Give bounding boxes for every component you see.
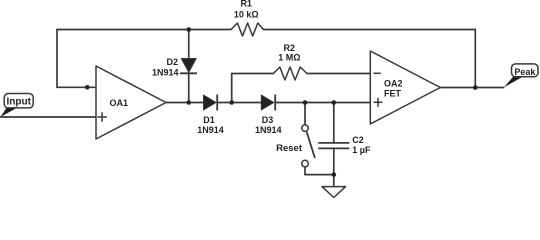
wire top rail right of R1: [263, 29, 475, 31]
wire switch bottom lead: [304, 167, 306, 175]
svg-text:10 kΩ: 10 kΩ: [234, 10, 259, 20]
Input tag: [1, 94, 34, 118]
wire R2 branch vertical: [231, 74, 233, 103]
wire input to OA1 non-inverting input: [1, 116, 96, 118]
node switch / C2 / ground: [332, 172, 337, 177]
wire R2 right lead to OA2 inverting input: [307, 73, 370, 75]
wire feedback to OA1 inverting input: [57, 86, 110, 88]
diode D2: [180, 59, 197, 74]
node rail / C2 branch: [332, 100, 337, 105]
svg-text:C2: C2: [352, 135, 364, 145]
wire C2 bottom to ground: [333, 149, 335, 187]
svg-text:1 µF: 1 µF: [352, 145, 371, 155]
wire C2 branch top: [333, 103, 335, 143]
wire right feedback vertical: [474, 30, 476, 88]
wire switch to capacitor bottom: [305, 174, 334, 176]
label R2 value: [278, 43, 300, 63]
svg-text:1N914: 1N914: [197, 125, 224, 135]
wire D1 cathode to D3 anode: [217, 102, 261, 104]
node D1 cathode / R2 branch: [229, 100, 234, 105]
svg-text:R2: R2: [284, 43, 296, 53]
wire switch branch top: [304, 103, 306, 125]
resistor R1: [231, 23, 263, 36]
svg-text:OA2: OA2: [384, 79, 403, 89]
wire D2 branch vertical: [188, 30, 190, 103]
resistor R2: [273, 67, 307, 80]
node top rail / D2: [186, 27, 191, 32]
label R1 value: [234, 0, 259, 19]
diode D1: [204, 95, 218, 111]
wire top rail left of R1: [57, 29, 231, 31]
svg-text:Input: Input: [6, 96, 31, 107]
svg-text:R1: R1: [240, 0, 252, 9]
label C2 value: [352, 135, 371, 155]
ground: [322, 187, 346, 198]
Peak tag: [504, 64, 538, 88]
svg-text:1N914: 1N914: [152, 68, 179, 78]
svg-text:Peak: Peak: [514, 67, 536, 77]
svg-text:FET: FET: [384, 89, 402, 99]
wire R2 branch left lead: [232, 73, 274, 75]
node feedback / OA1 inverting input: [85, 85, 90, 90]
wire OA2 output to Peak: [440, 87, 503, 89]
label D2 value: [152, 57, 179, 78]
label D3 value: [255, 115, 282, 135]
node OA2 output / right feedback: [473, 85, 478, 90]
diode D3: [261, 95, 275, 111]
svg-text:OA1: OA1: [110, 98, 129, 108]
op-amp OA1: [96, 66, 166, 139]
capacitor C2: [318, 143, 349, 149]
switch Reset: [302, 125, 315, 167]
svg-text:Reset: Reset: [276, 143, 303, 154]
svg-text:D2: D2: [166, 57, 178, 67]
op-amp OA2: [370, 51, 440, 124]
node OA1 output / D2: [186, 100, 191, 105]
wire left feedback vertical: [56, 30, 58, 88]
svg-text:1 MΩ: 1 MΩ: [278, 53, 300, 63]
label D1 value: [197, 115, 224, 135]
node rail / switch branch: [303, 100, 308, 105]
wire D3 cathode to OA2 non-inverting input: [275, 102, 370, 104]
wire OA1 output to D1 anode: [166, 102, 204, 104]
svg-text:1N914: 1N914: [255, 125, 282, 135]
svg-text:D3: D3: [262, 115, 274, 125]
svg-text:D1: D1: [203, 115, 215, 125]
